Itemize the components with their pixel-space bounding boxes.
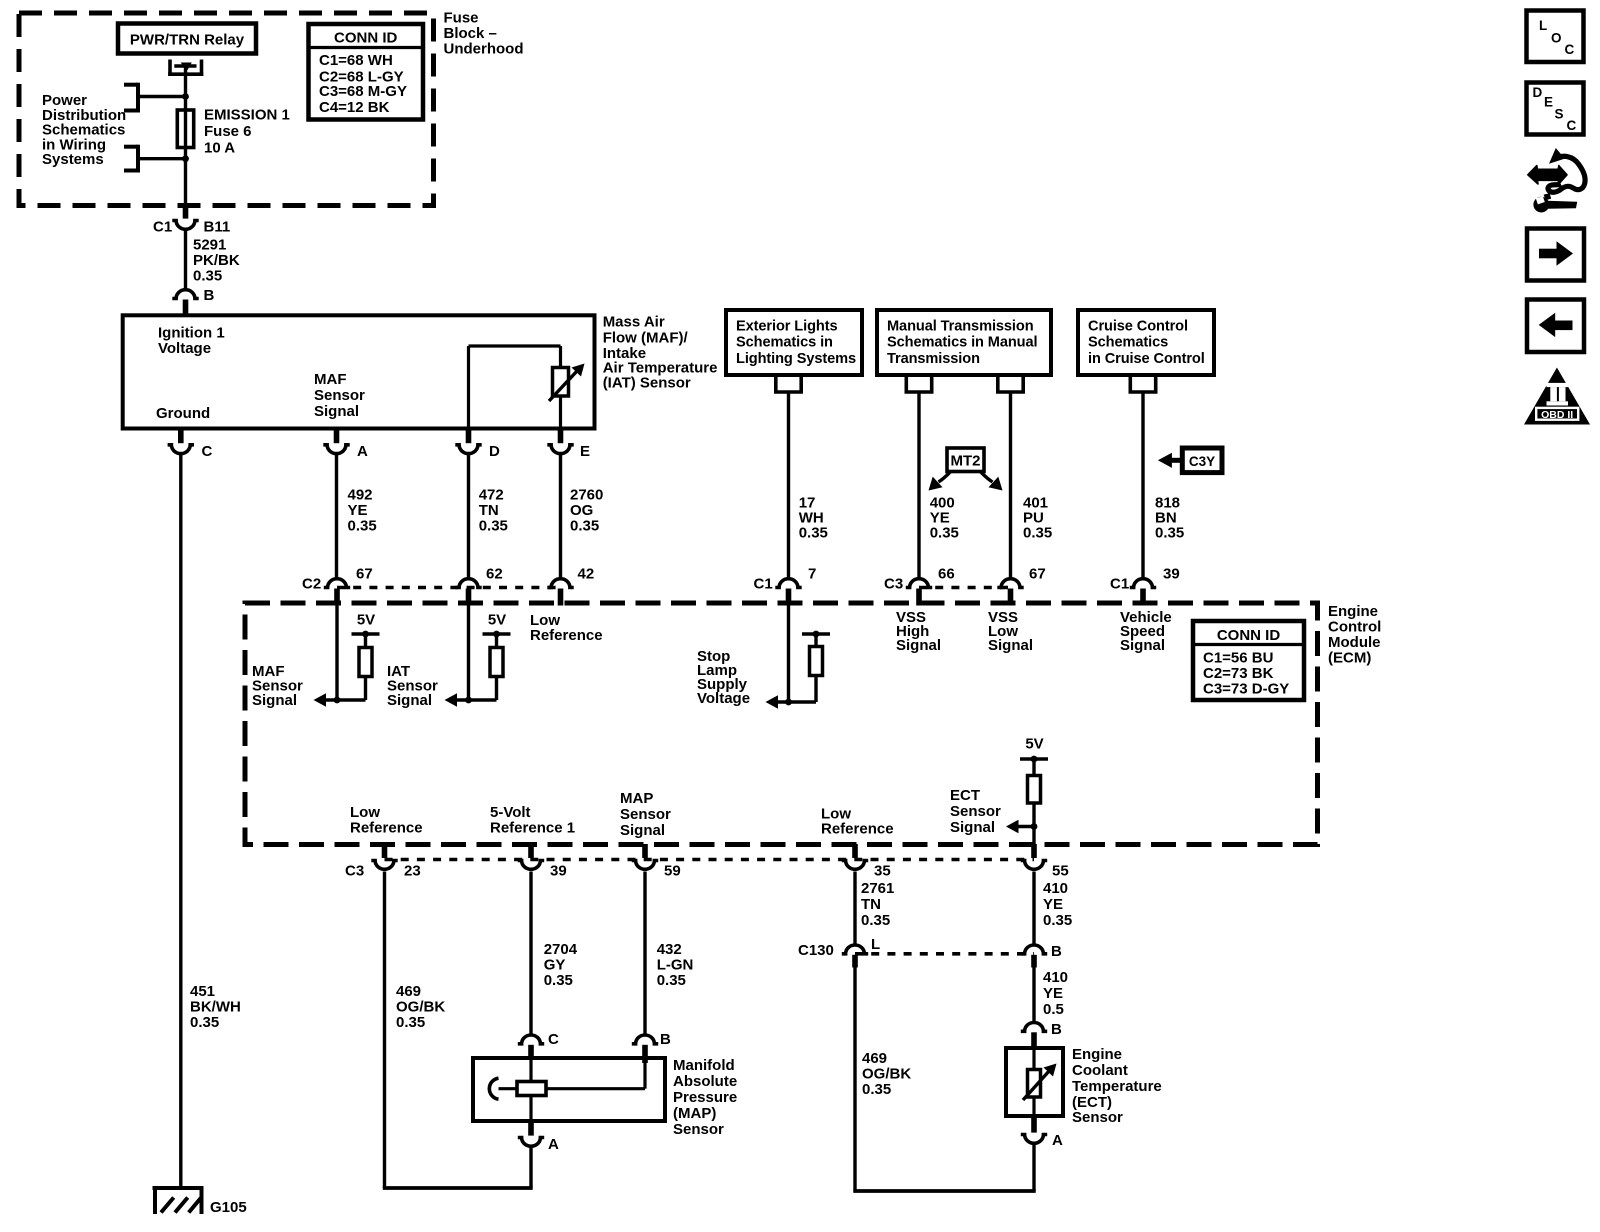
connector terminal A (ECT sensor) — [1021, 1116, 1063, 1149]
svg-text:B: B — [1051, 943, 1062, 960]
svg-text:0.35: 0.35 — [193, 268, 222, 285]
svg-text:Reference 1: Reference 1 — [490, 820, 575, 837]
svg-text:Module: Module — [1328, 634, 1381, 651]
svg-text:OG/BK: OG/BK — [396, 999, 445, 1016]
svg-text:Signal: Signal — [988, 637, 1033, 654]
connector terminal 59 (ECM bottom) — [632, 844, 681, 880]
ground G105 — [153, 1186, 247, 1216]
pull-up resistor (MAF) — [359, 634, 372, 700]
wire label 17 WH 0.35 — [799, 494, 828, 541]
connector C130 terminal L — [798, 936, 880, 968]
MAF sensor internal labels — [156, 325, 365, 423]
manual transmission fork left — [904, 375, 908, 392]
wire 2761 TN 0.35 (low ref to C130 L) — [853, 872, 856, 945]
wire 818 BN 0.35 (vehicle speed) — [1141, 392, 1144, 577]
wire label 2760 OG 0.35 — [570, 486, 603, 534]
IAT sensor signal label — [387, 663, 438, 709]
junction ECT signal — [1031, 823, 1038, 830]
wire 410 YE 0.5 (C130 B to ECT B) — [1032, 967, 1035, 1022]
connector terminal B (MAP sensor) — [632, 1031, 671, 1063]
wire 2704 GY 0.35 (5V ref to MAP C) — [529, 872, 532, 1035]
MAF/IAT sensor box — [123, 315, 595, 428]
low reference label (23) — [350, 804, 423, 837]
svg-text:Systems: Systems — [42, 151, 104, 168]
svg-text:YE: YE — [1043, 985, 1063, 1002]
power distribution bracket lower — [136, 145, 140, 173]
wire label 432 L-GN 0.35 — [657, 941, 694, 989]
svg-text:C3Y: C3Y — [1189, 454, 1215, 469]
connector terminal E (MAF/IAT sensor) — [547, 429, 590, 461]
svg-text:0.35: 0.35 — [1155, 525, 1184, 542]
svg-text:Fuse: Fuse — [444, 9, 479, 26]
wire label 2704 GY 0.35 — [544, 941, 578, 989]
wire label 400 YE 0.35 — [930, 494, 959, 541]
svg-text:0.35: 0.35 — [861, 912, 890, 929]
svg-text:2761: 2761 — [861, 880, 894, 897]
MAP sensor signal label — [620, 790, 671, 839]
svg-text:C130: C130 — [798, 942, 834, 959]
svg-text:Fuse 6: Fuse 6 — [204, 123, 252, 140]
connector C130 terminal B — [1021, 943, 1062, 968]
svg-text:Ignition 1: Ignition 1 — [158, 325, 225, 342]
svg-text:Sensor: Sensor — [620, 806, 671, 823]
ECT sensor signal label — [950, 787, 1001, 836]
wire 400 YE 0.35 (VSS high) — [917, 392, 920, 577]
svg-text:5V: 5V — [488, 611, 506, 628]
pull-up resistor (IAT) — [490, 634, 503, 700]
svg-text:472: 472 — [479, 486, 504, 503]
svg-text:Control: Control — [1328, 619, 1381, 636]
svg-text:23: 23 — [404, 863, 421, 880]
svg-text:OBD II: OBD II — [1541, 409, 1573, 421]
svg-text:0.35: 0.35 — [799, 525, 828, 542]
svg-text:B: B — [204, 287, 215, 304]
svg-text:GY: GY — [544, 957, 566, 974]
IAT signal arrow — [445, 693, 497, 707]
svg-text:Coolant: Coolant — [1072, 1062, 1128, 1079]
svg-text:CONN ID: CONN ID — [1217, 627, 1281, 644]
pull-up resistor (stop lamp) — [810, 634, 823, 702]
svg-text:0.35: 0.35 — [1023, 525, 1052, 542]
connector C1 terminal 7 — [754, 566, 817, 606]
icon back arrow box — [1527, 300, 1584, 353]
svg-text:in Cruise Control: in Cruise Control — [1088, 351, 1205, 367]
svg-text:MAP: MAP — [620, 790, 653, 807]
svg-text:Signal: Signal — [252, 692, 297, 709]
cruise control schematics box — [1078, 310, 1214, 375]
connector terminal C (MAF/IAT sensor) — [168, 429, 213, 461]
wire label 469 OG/BK 0.35 — [396, 983, 445, 1031]
supply bar (stop lamp) — [802, 631, 830, 638]
svg-text:C1=68 WH: C1=68 WH — [319, 52, 393, 69]
wire label 2761 TN 0.35 — [861, 880, 894, 929]
svg-text:Exterior Lights: Exterior Lights — [736, 319, 837, 335]
svg-text:C: C — [548, 1031, 559, 1048]
svg-text:D: D — [489, 443, 500, 460]
svg-text:BK/WH: BK/WH — [190, 999, 241, 1016]
svg-text:E: E — [1544, 95, 1553, 110]
wire 5291 PK/BK 0.35 — [184, 231, 187, 290]
conn id table (fuse block) — [309, 24, 424, 120]
icon scenic route / double arrow with wrench — [1528, 148, 1585, 213]
svg-text:67: 67 — [356, 566, 373, 583]
wire label 410 YE 0.35 — [1043, 880, 1072, 929]
junction MAF signal — [334, 697, 341, 704]
power distribution bracket upper — [136, 83, 140, 113]
svg-text:A: A — [357, 443, 368, 460]
svg-text:0.35: 0.35 — [190, 1014, 219, 1031]
svg-text:(ECM): (ECM) — [1328, 650, 1371, 667]
svg-text:2760: 2760 — [570, 486, 603, 503]
conn id table (ECM) — [1193, 621, 1304, 700]
svg-text:2704: 2704 — [544, 941, 578, 958]
MAP sensor name label — [673, 1057, 737, 1138]
svg-text:C2: C2 — [302, 576, 321, 593]
svg-text:ECT: ECT — [950, 787, 980, 804]
connector terminal 62 — [455, 566, 502, 606]
connector terminal 35 (ECM bottom) — [842, 844, 891, 880]
svg-text:7: 7 — [808, 566, 816, 583]
5V supply (MAF) — [352, 611, 380, 637]
svg-text:Signal: Signal — [896, 637, 941, 654]
wire bottom link (MAP) — [383, 1186, 533, 1190]
fuse label EMISSION 1 Fuse 6 10 A — [204, 107, 290, 157]
svg-text:469: 469 — [396, 983, 421, 1000]
connector C1 terminal 39 — [1110, 566, 1180, 606]
wire through fuse — [184, 109, 187, 159]
svg-text:Reference: Reference — [530, 627, 603, 644]
connector C3 terminal 66 — [884, 566, 955, 606]
svg-text:MAF: MAF — [314, 371, 347, 388]
svg-text:C3: C3 — [345, 863, 364, 880]
svg-text:67: 67 — [1029, 566, 1046, 583]
relay contact symbol — [168, 60, 203, 77]
svg-text:C1: C1 — [153, 219, 172, 236]
fuse block underhood dashed enclosure — [19, 13, 434, 206]
svg-text:Schematics in: Schematics in — [736, 335, 833, 351]
svg-text:YE: YE — [348, 502, 368, 519]
svg-text:0.35: 0.35 — [930, 525, 959, 542]
connector terminal 67 (VSS low) — [997, 566, 1045, 606]
svg-text:0.35: 0.35 — [657, 972, 686, 989]
icon OBD II triangle — [1524, 368, 1590, 425]
svg-text:TN: TN — [861, 896, 881, 913]
connector terminal 42 — [547, 566, 594, 606]
svg-text:YE: YE — [1043, 896, 1063, 913]
svg-text:MT2: MT2 — [951, 452, 981, 469]
svg-text:CONN ID: CONN ID — [334, 29, 398, 46]
wire 410 YE 0.35 (ECT signal to C130 B) — [1032, 872, 1035, 945]
svg-text:Schematics: Schematics — [1088, 335, 1168, 351]
svg-text:Signal: Signal — [620, 822, 665, 839]
exterior lights schematics box — [726, 310, 862, 375]
svg-text:Sensor: Sensor — [314, 387, 365, 404]
wire relay to fuse — [184, 67, 187, 109]
svg-text:Ground: Ground — [156, 405, 210, 422]
wire label 469 OG/BK 0.35 (right) — [862, 1050, 911, 1098]
svg-text:EMISSION 1: EMISSION 1 — [204, 107, 290, 124]
svg-text:Cruise Control: Cruise Control — [1088, 319, 1188, 335]
5-volt reference 1 label — [490, 804, 575, 837]
svg-text:TN: TN — [479, 502, 499, 519]
wire label 401 PU 0.35 — [1023, 494, 1052, 541]
connector terminal A (MAF/IAT sensor) — [323, 429, 368, 461]
fuse block label — [444, 9, 524, 57]
svg-text:C1: C1 — [754, 576, 773, 593]
icon LOC box — [1527, 11, 1584, 63]
icon forward arrow box — [1527, 229, 1584, 281]
svg-text:C3=73 D-GY: C3=73 D-GY — [1203, 681, 1289, 698]
wire label 818 BN 0.35 — [1155, 494, 1184, 541]
wire ECT A to C130 L leg — [1032, 1145, 1035, 1191]
svg-text:Voltage: Voltage — [158, 340, 211, 357]
manual transmission schematics box — [877, 310, 1051, 375]
connector terminal 39 (ECM bottom) — [518, 844, 567, 880]
splice label MT2 — [929, 448, 1003, 491]
svg-text:D: D — [1533, 85, 1543, 100]
wire 492 YE 0.35 (MAF signal A) — [335, 455, 338, 577]
relay K1 PWR/TRN Relay box — [118, 24, 256, 54]
MAF signal arrow — [314, 693, 366, 707]
svg-text:OG/BK: OG/BK — [862, 1066, 911, 1083]
svg-text:Signal: Signal — [950, 819, 995, 836]
ECM internal wire MAF signal — [335, 605, 338, 700]
svg-text:Temperature: Temperature — [1072, 1078, 1162, 1095]
ECM internal wire stop lamp supply — [787, 605, 790, 702]
wire 432 L-GN 0.35 (MAP signal to MAP B) — [643, 872, 646, 1035]
svg-text:PWR/TRN Relay: PWR/TRN Relay — [130, 32, 245, 49]
svg-text:E: E — [580, 443, 590, 460]
5V supply (ECT) — [1020, 735, 1048, 762]
wire 401 PU 0.35 (VSS low) — [1009, 392, 1012, 577]
connector terminal A (MAP sensor) — [518, 1121, 559, 1153]
junction stop lamp — [785, 699, 792, 706]
svg-text:Schematics in Manual: Schematics in Manual — [887, 335, 1038, 351]
svg-text:5291: 5291 — [193, 237, 226, 254]
wire branch to power distribution (upper) — [138, 95, 186, 98]
vehicle speed signal label — [1120, 609, 1172, 654]
svg-text:469: 469 — [862, 1050, 887, 1067]
svg-text:42: 42 — [578, 566, 595, 583]
manual transmission fork right — [996, 375, 1000, 392]
svg-text:432: 432 — [657, 941, 682, 958]
wire branch to power distribution (lower) — [138, 157, 186, 160]
svg-text:Underhood: Underhood — [444, 41, 524, 58]
svg-text:L-GN: L-GN — [657, 957, 694, 974]
low reference label (35) — [821, 806, 894, 838]
connector reference C3Y — [1158, 448, 1222, 473]
cruise control fork — [1129, 375, 1133, 392]
svg-text:Manual Transmission: Manual Transmission — [887, 319, 1034, 335]
ECM engine control module dashed enclosure — [245, 603, 1318, 845]
svg-text:C2=73 BK: C2=73 BK — [1203, 665, 1274, 682]
svg-text:Absolute: Absolute — [673, 1073, 737, 1090]
5V supply (IAT) — [483, 611, 511, 637]
connector C3 terminal 23 (ECM bottom) — [345, 844, 421, 880]
connector row dotted line C3 bottom group — [385, 858, 1035, 862]
svg-text:C: C — [1567, 118, 1577, 133]
svg-text:Mass Air: Mass Air — [603, 313, 665, 330]
svg-text:Block –: Block – — [444, 25, 497, 42]
MAP transducer symbol — [489, 1058, 645, 1121]
svg-text:A: A — [548, 1136, 559, 1153]
wire 2760 OG 0.35 (low ref E) — [559, 455, 562, 577]
wire label 410 YE 0.5 — [1043, 969, 1068, 1018]
wire 472 TN 0.35 (IAT signal D) — [467, 455, 470, 577]
svg-text:451: 451 — [190, 983, 215, 1000]
svg-text:OG: OG — [570, 502, 593, 519]
svg-text:(MAP): (MAP) — [673, 1105, 716, 1122]
svg-text:B: B — [1051, 1021, 1062, 1038]
ECT sensor box — [1006, 1048, 1063, 1116]
svg-text:Engine: Engine — [1328, 603, 1378, 620]
svg-text:66: 66 — [938, 566, 955, 583]
svg-text:55: 55 — [1052, 863, 1069, 880]
connector terminal D (MAF/IAT sensor) — [455, 429, 500, 461]
svg-text:Pressure: Pressure — [673, 1089, 737, 1106]
wire 17 WH 0.35 (stop lamp supply) — [787, 392, 790, 577]
svg-text:0.35: 0.35 — [348, 517, 377, 534]
stop lamp arrow — [766, 695, 817, 709]
svg-text:C4=12 BK: C4=12 BK — [319, 99, 390, 116]
svg-text:B: B — [660, 1031, 671, 1048]
svg-text:PK/BK: PK/BK — [193, 252, 240, 269]
junction upper branch — [182, 93, 189, 100]
connector terminal B (ECT sensor) — [1021, 1021, 1062, 1048]
svg-text:5V: 5V — [1025, 735, 1043, 752]
svg-text:Signal: Signal — [387, 692, 432, 709]
svg-text:C: C — [202, 443, 213, 460]
IAT thermistor branch wiring inside box — [469, 346, 561, 429]
pull-up resistor (ECT) — [1028, 759, 1041, 844]
ECT sensor name label — [1072, 1046, 1162, 1126]
stop lamp supply voltage label — [697, 648, 750, 707]
ECT signal arrow — [1006, 820, 1034, 834]
ECT thermistor (variable resistor) — [1023, 1048, 1057, 1116]
wire label 5291 PK/BK 0.35 — [193, 237, 240, 285]
svg-text:C: C — [1565, 42, 1575, 57]
svg-text:Sensor: Sensor — [1072, 1109, 1123, 1126]
connector C1 terminal B11 (fuse block side) — [153, 204, 230, 236]
svg-text:35: 35 — [874, 863, 891, 880]
junction lower branch — [182, 155, 189, 162]
svg-text:Manifold: Manifold — [673, 1057, 735, 1074]
connector terminal C (MAP sensor) — [518, 1031, 559, 1058]
svg-text:5-Volt: 5-Volt — [490, 804, 531, 821]
svg-text:0.35: 0.35 — [396, 1014, 425, 1031]
svg-text:0.5: 0.5 — [1043, 1001, 1064, 1018]
svg-text:0.35: 0.35 — [1043, 912, 1072, 929]
connector terminal B (MAF sensor side) — [172, 287, 214, 316]
svg-text:0.35: 0.35 — [570, 517, 599, 534]
svg-text:10 A: 10 A — [204, 140, 235, 157]
svg-text:Transmission: Transmission — [887, 351, 980, 367]
svg-text:Engine: Engine — [1072, 1046, 1122, 1063]
svg-text:C3: C3 — [884, 576, 903, 593]
wire 469 OG/BK 0.35 (low ref to MAP A) — [383, 872, 386, 1189]
svg-text:59: 59 — [664, 863, 681, 880]
IAT thermistor (variable resistor) — [549, 364, 585, 402]
svg-text:Signal: Signal — [314, 403, 359, 420]
power distribution schematics note — [42, 92, 126, 168]
svg-text:C3=68 M-GY: C3=68 M-GY — [319, 83, 407, 100]
svg-text:Reference: Reference — [821, 821, 894, 838]
svg-text:B11: B11 — [204, 219, 231, 236]
svg-text:(IAT) Sensor: (IAT) Sensor — [603, 374, 691, 391]
junction IAT signal — [465, 697, 472, 704]
svg-text:L: L — [1539, 18, 1547, 33]
wire 469 OG/BK 0.35 (C130 L to ECT A) — [853, 967, 856, 1191]
svg-text:5V: 5V — [357, 611, 375, 628]
svg-text:Voltage: Voltage — [697, 690, 750, 707]
ECM name label — [1328, 603, 1381, 667]
wire fuse to connector C1 — [184, 159, 187, 204]
svg-text:62: 62 — [486, 566, 503, 583]
svg-text:39: 39 — [550, 863, 567, 880]
fuse F6 EMISSION 1 10A — [177, 110, 193, 148]
low reference label (42) — [530, 612, 603, 644]
svg-text:G105: G105 — [210, 1199, 247, 1216]
svg-text:0.35: 0.35 — [862, 1081, 891, 1098]
svg-text:0.35: 0.35 — [544, 972, 573, 989]
wire bottom link (ECT) — [853, 1189, 1035, 1193]
svg-text:Sensor: Sensor — [673, 1121, 724, 1138]
exterior lights fork — [774, 375, 778, 392]
svg-text:C1: C1 — [1110, 576, 1129, 593]
svg-text:Reference: Reference — [350, 820, 423, 837]
wire label 472 TN 0.35 — [479, 486, 508, 534]
connector C130 dotted line — [855, 952, 1034, 956]
svg-text:S: S — [1555, 107, 1564, 122]
svg-text:Sensor: Sensor — [950, 803, 1001, 820]
VSS low signal label — [988, 609, 1033, 654]
VSS high signal label — [896, 609, 941, 654]
svg-text:410: 410 — [1043, 880, 1068, 897]
connector C2 terminal 67 — [302, 566, 373, 606]
svg-text:Low: Low — [350, 804, 380, 821]
svg-text:Signal: Signal — [1120, 637, 1165, 654]
connector terminal 55 (ECM bottom) — [1021, 844, 1069, 880]
svg-text:492: 492 — [348, 486, 373, 503]
icon DESC box — [1527, 83, 1584, 135]
svg-text:Lighting Systems: Lighting Systems — [736, 351, 856, 367]
svg-text:O: O — [1551, 31, 1562, 46]
MAF sensor signal label — [252, 663, 303, 709]
svg-text:A: A — [1052, 1132, 1063, 1149]
wire MAP A to low reference leg — [529, 1148, 532, 1188]
svg-text:C1=56 BU: C1=56 BU — [1203, 650, 1273, 667]
svg-text:0.35: 0.35 — [479, 517, 508, 534]
svg-text:39: 39 — [1163, 566, 1180, 583]
wire label 492 YE 0.35 — [348, 486, 377, 534]
MAP sensor box — [473, 1058, 665, 1121]
wire ground C to G105 — [179, 455, 182, 1188]
wire label 451 BK/WH 0.35 — [190, 983, 241, 1031]
connector row dotted line C3-66/67 — [919, 586, 1011, 590]
ECM internal wire IAT signal — [467, 605, 470, 700]
connector row dotted line C2 group — [337, 586, 561, 590]
svg-text:410: 410 — [1043, 969, 1068, 986]
MAF/IAT sensor name label — [603, 313, 718, 391]
svg-text:L: L — [871, 936, 880, 953]
